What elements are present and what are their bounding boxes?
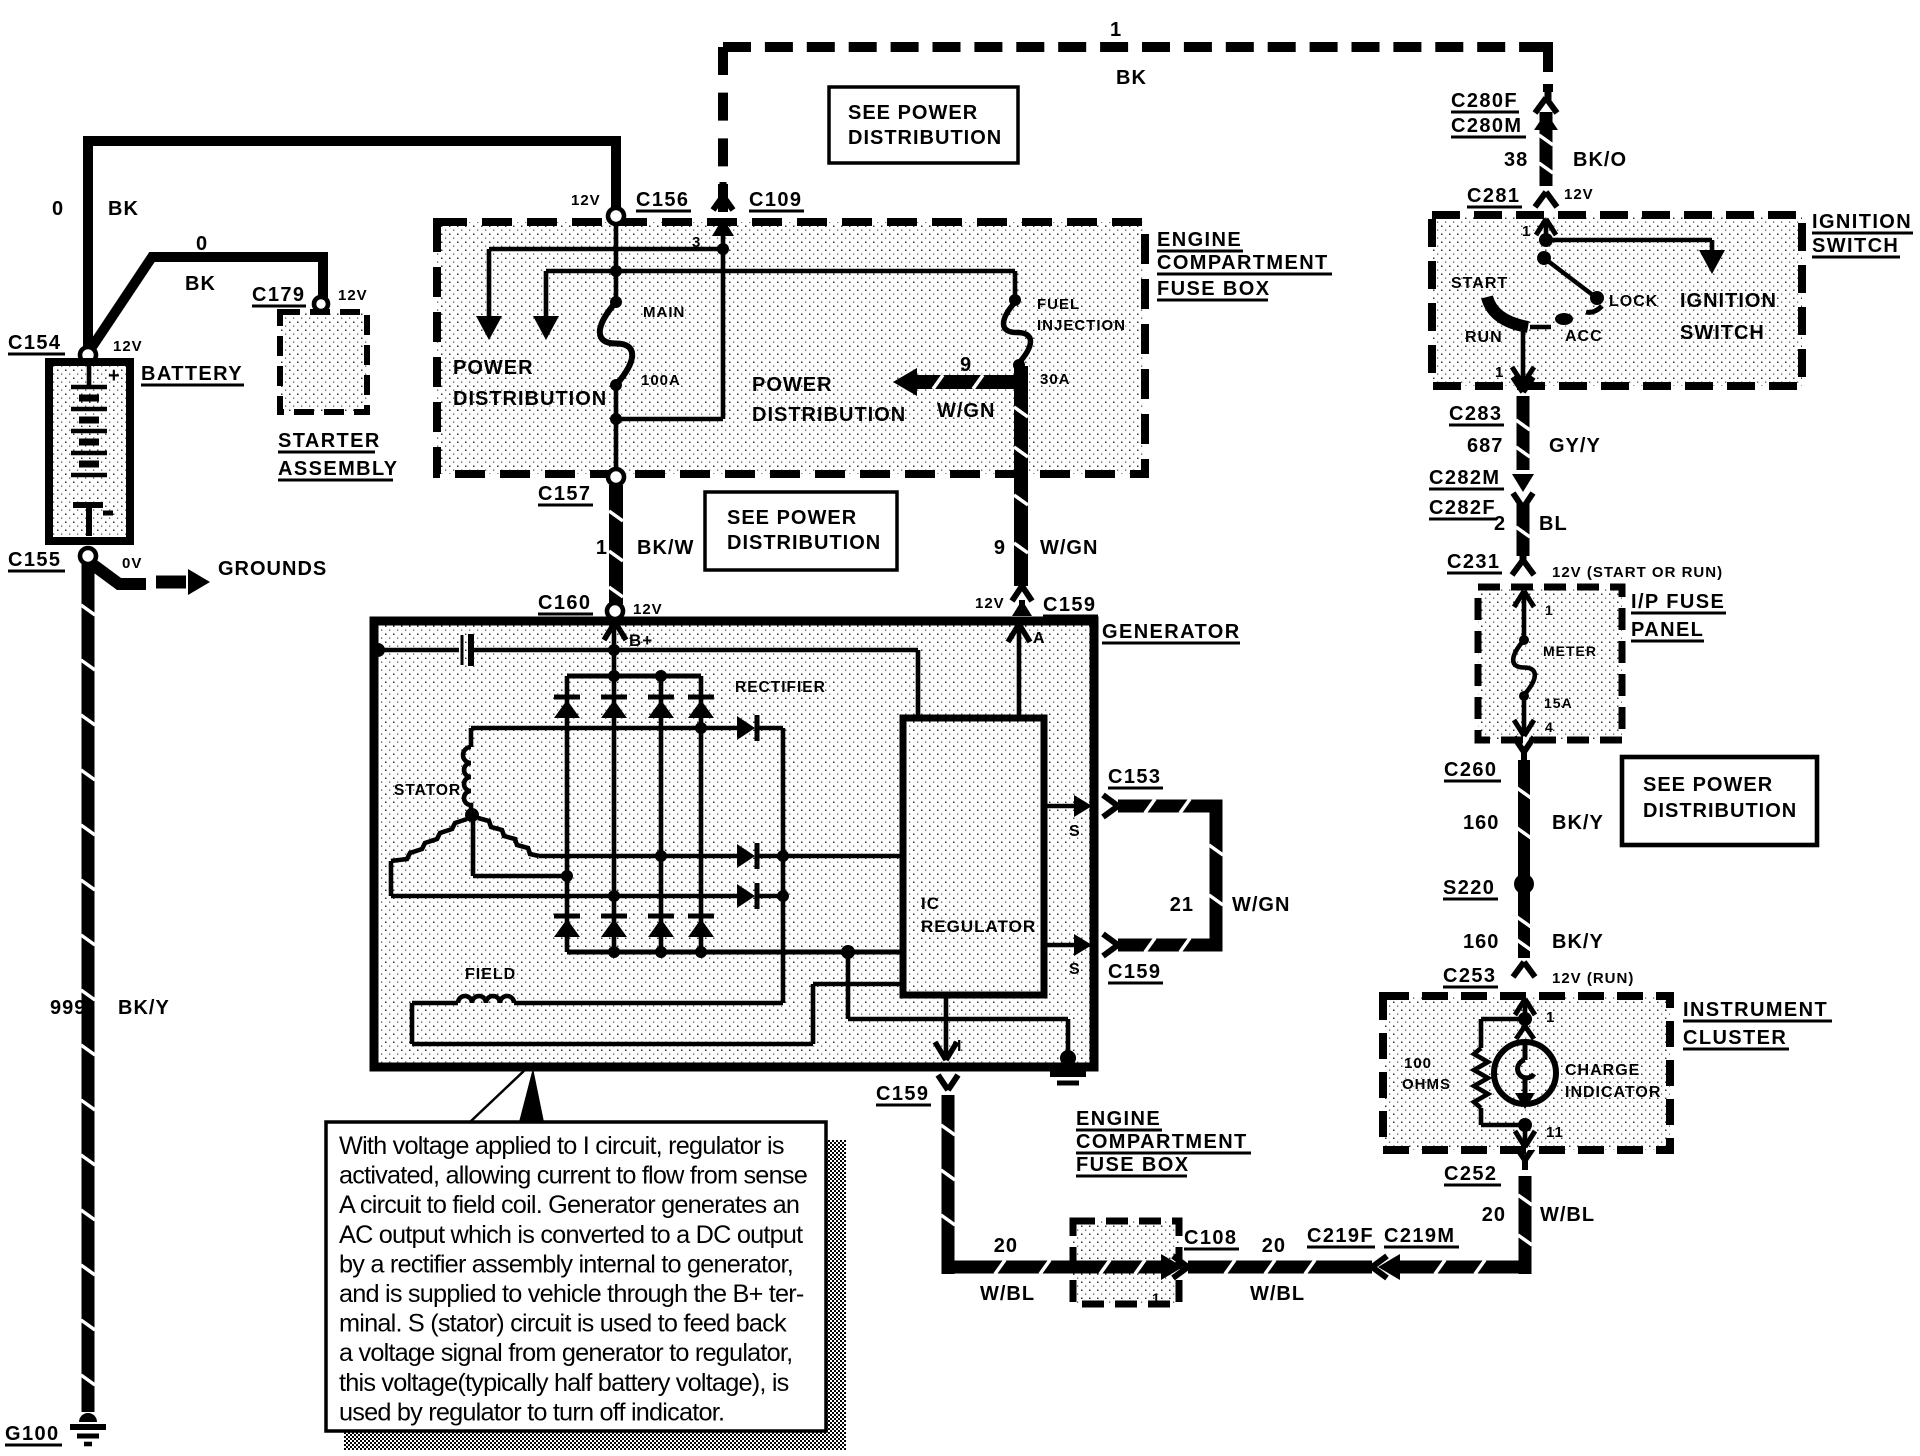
svg-text:a voltage signal from generato: a voltage signal from generator to regul… [339, 1339, 792, 1367]
svg-text:IGNITION: IGNITION [1812, 211, 1912, 233]
svg-text:C282M: C282M [1429, 467, 1500, 489]
svg-text:C179: C179 [252, 284, 305, 306]
wire battery positive to C156 (0 BK) [88, 141, 616, 352]
svg-text:minal. S (stator) circuit is: minal. S (stator) circuit is used to fee… [339, 1310, 787, 1338]
svg-text:GENERATOR: GENERATOR [1102, 621, 1241, 643]
wire 160 BK/Y lower [1518, 892, 1530, 958]
note box SEE POWER DISTRIBUTION (top) [829, 87, 1018, 163]
svg-text:4: 4 [1545, 719, 1554, 735]
svg-text:OHMS: OHMS [1402, 1076, 1451, 1093]
svg-text:GROUNDS: GROUNDS [218, 558, 327, 580]
svg-text:W/BL: W/BL [1540, 1204, 1595, 1226]
svg-text:12V: 12V [1564, 186, 1594, 203]
svg-text:RECTIFIER: RECTIFIER [735, 679, 826, 696]
svg-text:A: A [1033, 630, 1046, 647]
svg-text:C108: C108 [1184, 1227, 1237, 1249]
svg-text:W/GN: W/GN [1232, 894, 1290, 916]
cluster pin 11 exit [1518, 1118, 1532, 1132]
svg-text:C157: C157 [538, 483, 591, 505]
svg-text:METER: METER [1543, 643, 1597, 659]
wire 9 W/GN arrow inside fuse box [912, 375, 1021, 389]
charge indicator lamp [1516, 1026, 1525, 1039]
rectifier bottom bus [567, 950, 903, 955]
svg-text:1: 1 [1545, 602, 1554, 618]
svg-text:G100: G100 [5, 1423, 60, 1445]
svg-text:BK/O: BK/O [1573, 149, 1627, 171]
svg-text:160: 160 [1463, 812, 1499, 834]
svg-text:ENGINE: ENGINE [1157, 229, 1242, 251]
power distribution down-arrow 2 [544, 271, 549, 320]
svg-text:C153: C153 [1108, 766, 1161, 788]
svg-text:With voltage applied to I circ: With voltage applied to I circuit, regul… [339, 1132, 784, 1160]
wire 160 BK/Y upper [1518, 760, 1530, 876]
wire 1 BK/W [609, 485, 623, 604]
regulator ground branch [841, 945, 855, 959]
svg-text:I: I [957, 1038, 962, 1055]
wire 20 W/BL middle [1188, 1261, 1372, 1274]
svg-text:C219M: C219M [1384, 1225, 1455, 1247]
svg-text:9: 9 [994, 537, 1006, 559]
svg-text:BL: BL [1539, 513, 1568, 535]
diode trio output bus [781, 728, 786, 1003]
svg-text:CHARGE: CHARGE [1565, 1062, 1640, 1079]
svg-text:ACC: ACC [1565, 328, 1603, 345]
svg-text:C260: C260 [1444, 759, 1497, 781]
wire 21 W/GN [1118, 806, 1216, 945]
svg-text:12V (START OR RUN): 12V (START OR RUN) [1552, 564, 1723, 581]
svg-text:AC output which is converted t: AC output which is converted to a DC out… [339, 1221, 803, 1249]
svg-text:W/GN: W/GN [937, 400, 995, 422]
fuse box internal wires [614, 224, 619, 302]
svg-text:C282F: C282F [1429, 497, 1496, 519]
wire 2 BL [1517, 504, 1530, 556]
svg-text:21: 21 [1170, 894, 1194, 916]
svg-text:15A: 15A [1544, 695, 1573, 711]
svg-text:DISTRIBUTION: DISTRIBUTION [752, 404, 906, 426]
svg-text:ASSEMBLY: ASSEMBLY [278, 458, 399, 480]
resistor 100 OHMS [1481, 1017, 1525, 1022]
regulator I output [944, 995, 949, 1058]
svg-text:1: 1 [1546, 1009, 1555, 1026]
svg-text:SEE POWER: SEE POWER [1643, 774, 1773, 796]
svg-text:activated, allowing current to: activated, allowing current to flow from… [339, 1162, 807, 1190]
svg-text:S220: S220 [1443, 877, 1495, 899]
svg-text:FIELD: FIELD [465, 966, 516, 983]
svg-text:BK/Y: BK/Y [1552, 812, 1604, 834]
svg-text:B+: B+ [629, 631, 653, 650]
svg-text:SEE POWER: SEE POWER [848, 102, 978, 124]
rectifier diodes bottom row [554, 914, 580, 919]
stator phase 3 line and diode trio 3 [391, 894, 737, 899]
svg-text:C283: C283 [1449, 403, 1502, 425]
fuse FUEL INJECTION 30A [1013, 271, 1018, 300]
svg-text:FUSE BOX: FUSE BOX [1157, 278, 1270, 300]
svg-text:IGNITION: IGNITION [1680, 290, 1777, 312]
fuse box segment C108 [1073, 1221, 1179, 1304]
svg-text:A circuit to field coil. Gener: A circuit to field coil. Generator gener… [339, 1191, 799, 1219]
rectifier diodes top row [554, 695, 580, 700]
svg-text:20: 20 [1482, 1204, 1506, 1226]
ignition rotary contact arc [1487, 297, 1528, 327]
fuse MAIN 100A [600, 302, 632, 385]
wire battery to starter assembly (0 BK) [90, 257, 323, 350]
svg-text:20: 20 [1262, 1235, 1286, 1257]
svg-text:STATOR: STATOR [394, 782, 461, 799]
svg-text:SWITCH: SWITCH [1812, 235, 1899, 257]
svg-text:0V: 0V [122, 555, 142, 572]
svg-text:1: 1 [1495, 364, 1504, 381]
svg-text:C253: C253 [1443, 965, 1496, 987]
svg-text:1: 1 [1110, 19, 1122, 41]
svg-text:BK/Y: BK/Y [118, 997, 170, 1019]
svg-text:C159: C159 [1043, 594, 1096, 616]
svg-text:GY/Y: GY/Y [1549, 435, 1601, 457]
svg-text:38: 38 [1504, 149, 1528, 171]
svg-text:BK: BK [185, 273, 216, 295]
svg-text:BATTERY: BATTERY [141, 363, 243, 385]
wire 1 BK dashed top run [718, 47, 728, 212]
svg-text:INSTRUMENT: INSTRUMENT [1683, 999, 1828, 1021]
svg-text:POWER: POWER [752, 374, 833, 396]
wire C155 to G100 (999 BK/Y) [82, 564, 95, 1412]
svg-text:I/P FUSE: I/P FUSE [1631, 591, 1725, 613]
svg-text:+: + [108, 365, 121, 387]
svg-text:PANEL: PANEL [1631, 619, 1704, 641]
svg-text:DISTRIBUTION: DISTRIBUTION [727, 532, 881, 554]
svg-text:1: 1 [1522, 223, 1531, 240]
svg-text:ENGINE: ENGINE [1076, 1108, 1161, 1130]
svg-text:C252: C252 [1444, 1163, 1497, 1185]
power distribution down-arrow 1 [487, 249, 492, 320]
svg-text:C156: C156 [636, 189, 689, 211]
svg-text:9: 9 [960, 354, 972, 376]
note box [326, 1122, 826, 1431]
note box callout wedge [519, 1068, 544, 1122]
svg-text:30A: 30A [1040, 371, 1071, 388]
svg-text:C281: C281 [1467, 185, 1520, 207]
svg-text:FUSE BOX: FUSE BOX [1076, 1154, 1189, 1176]
ignition output pin 1 [1521, 328, 1526, 382]
svg-text:SEE POWER: SEE POWER [727, 507, 857, 529]
svg-text:this voltage(typically half ba: this voltage(typically half battery volt… [339, 1369, 789, 1397]
svg-text:11: 11 [1546, 1124, 1564, 1141]
svg-text:used by regulator to turn off: used by regulator to turn off indicator. [339, 1398, 724, 1426]
svg-text:687: 687 [1467, 435, 1503, 457]
svg-text:MAIN: MAIN [643, 304, 685, 321]
svg-text:W/BL: W/BL [980, 1283, 1035, 1305]
svg-text:DISTRIBUTION: DISTRIBUTION [848, 127, 1002, 149]
svg-text:C109: C109 [749, 189, 802, 211]
svg-text:BK/W: BK/W [637, 537, 694, 559]
generator internal ground [1060, 1050, 1076, 1066]
svg-text:C280M: C280M [1451, 115, 1522, 137]
svg-text:RUN: RUN [1465, 329, 1503, 346]
svg-text:C280F: C280F [1451, 90, 1518, 112]
svg-text:C154: C154 [8, 332, 61, 354]
svg-text:START: START [1451, 275, 1508, 292]
svg-text:12V: 12V [338, 287, 368, 304]
svg-text:C155: C155 [8, 549, 61, 571]
IC regulator [903, 718, 1044, 995]
svg-text:by a rectifier assembly intern: by a rectifier assembly internal to gene… [339, 1250, 793, 1278]
svg-text:100A: 100A [641, 372, 681, 389]
svg-text:SWITCH: SWITCH [1680, 322, 1765, 344]
svg-text:S: S [1069, 823, 1081, 840]
svg-text:W/BL: W/BL [1250, 1283, 1305, 1305]
note box SEE POWER DISTRIBUTION (middle) [705, 492, 897, 570]
svg-text:BK: BK [1116, 67, 1147, 89]
svg-text:IC: IC [921, 894, 940, 913]
svg-text:C159: C159 [876, 1083, 929, 1105]
svg-text:C159: C159 [1108, 961, 1161, 983]
svg-text:0: 0 [52, 198, 64, 220]
svg-text:INDICATOR: INDICATOR [1565, 1084, 1661, 1101]
rectifier top bus [567, 674, 701, 679]
B+ terminal arrow [604, 622, 615, 640]
svg-text:12V: 12V [113, 338, 143, 355]
svg-text:S: S [1069, 961, 1081, 978]
generator internal B+ sense line with capacitor [371, 643, 385, 657]
cluster pin 1 entry [1515, 999, 1525, 1015]
svg-text:C219F: C219F [1307, 1225, 1374, 1247]
wire 9 W/GN vertical [1014, 366, 1028, 586]
svg-text:and is supplied to vehicle thr: and is supplied to vehicle through the B… [339, 1280, 804, 1308]
svg-text:W/GN: W/GN [1040, 537, 1098, 559]
svg-text:0: 0 [196, 233, 208, 255]
svg-text:INJECTION: INJECTION [1037, 317, 1126, 334]
stator centre tap line [471, 815, 476, 876]
starter assembly box [280, 312, 367, 412]
svg-text:100: 100 [1404, 1055, 1432, 1072]
regulator S output to C159 [1044, 943, 1082, 948]
note box SEE POWER DISTRIBUTION (right) [1622, 757, 1817, 845]
regulator S output to C153 [1044, 804, 1082, 809]
note box shadow [826, 1140, 846, 1450]
svg-text:STARTER: STARTER [278, 430, 381, 452]
stator phase 1 line and diode trio 1 [471, 726, 737, 731]
svg-text:1: 1 [596, 537, 608, 559]
svg-text:999: 999 [50, 997, 86, 1019]
grounds pointer arrow [92, 564, 146, 584]
wire 38 BK/O [1540, 112, 1553, 186]
svg-text:12V (RUN): 12V (RUN) [1552, 970, 1634, 987]
wire 20 W/BL from generator I [942, 1095, 955, 1274]
A terminal arrow and line [1008, 624, 1019, 642]
svg-text:12V: 12V [975, 595, 1005, 612]
battery [49, 362, 130, 541]
svg-text:FUEL: FUEL [1037, 296, 1080, 313]
svg-text:160: 160 [1463, 931, 1499, 953]
svg-text:COMPARTMENT: COMPARTMENT [1157, 252, 1329, 274]
wire inside C108 box [1073, 1261, 1162, 1274]
svg-text:REGULATOR: REGULATOR [921, 917, 1036, 936]
svg-text:2: 2 [1494, 513, 1506, 535]
svg-text:DISTRIBUTION: DISTRIBUTION [453, 388, 607, 410]
svg-text:C160: C160 [538, 592, 591, 614]
wire 20 W/BL right [1392, 1261, 1531, 1274]
svg-text:CLUSTER: CLUSTER [1683, 1027, 1787, 1049]
svg-text:C231: C231 [1447, 551, 1500, 573]
instrument cluster box [1383, 996, 1670, 1150]
svg-text:BK: BK [108, 198, 139, 220]
ignition switch internals [1536, 219, 1546, 235]
engine compartment fuse box [437, 222, 1145, 474]
I/P fuse panel box [1478, 587, 1622, 740]
B+ vertical line (rectifier leg 2) [612, 619, 617, 952]
svg-text:POWER: POWER [453, 357, 534, 379]
svg-text:COMPARTMENT: COMPARTMENT [1076, 1131, 1248, 1153]
fuse METER 15A [1514, 591, 1524, 607]
svg-text:20: 20 [994, 1235, 1018, 1257]
ignition switch box [1432, 215, 1802, 386]
svg-text:BK/Y: BK/Y [1552, 931, 1604, 953]
svg-text:12V: 12V [571, 192, 601, 209]
svg-text:LOCK: LOCK [1609, 293, 1658, 310]
svg-text:1: 1 [1152, 1290, 1161, 1306]
wire 687 GY/Y [1517, 396, 1530, 470]
svg-text:12V: 12V [633, 601, 663, 618]
stator phase 2 line and diode trio 2 [539, 854, 737, 859]
svg-text:DISTRIBUTION: DISTRIBUTION [1643, 800, 1797, 822]
generator box [374, 621, 1094, 1067]
ACC contact [1530, 325, 1551, 330]
